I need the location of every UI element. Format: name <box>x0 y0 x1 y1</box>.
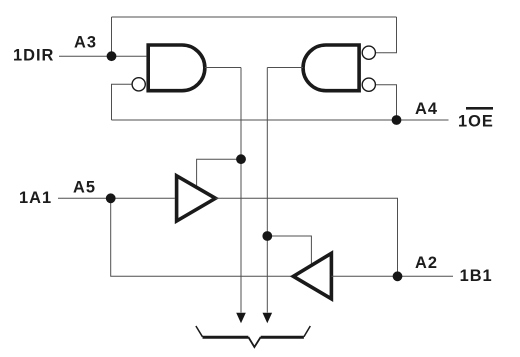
wire DIR node up <box>111 17 113 56</box>
wire U1b lower bubble to OE node <box>376 85 397 120</box>
wire DIR down to U1b top bubble <box>376 17 397 53</box>
AND gate U1b <box>303 45 359 91</box>
arrowhead 1 <box>236 313 246 324</box>
wire U3 input / 1B1 lead <box>331 275 453 277</box>
junction node DIR <box>107 51 117 61</box>
wire OE up to U1a bubble <box>112 84 132 120</box>
brace left tick <box>196 326 203 337</box>
wire 1OE horizontal <box>112 119 449 121</box>
overline of 1OE <box>466 107 493 110</box>
svg-text:A3: A3 <box>74 34 97 52</box>
junction node OE <box>392 115 402 125</box>
wire 1A1 lead <box>58 197 175 199</box>
inverting bubble U1b upper input <box>362 46 375 59</box>
junction node B <box>393 271 403 281</box>
buffer U3 <box>293 253 331 298</box>
arrowhead 2 <box>263 313 273 324</box>
wire DIR top horizontal <box>112 16 397 18</box>
wire enable vertical 2 <box>266 68 268 313</box>
wire U1b output <box>267 67 303 69</box>
inverting bubble U1b lower input <box>362 78 375 91</box>
wire buffer U3 enable <box>267 236 311 266</box>
svg-text:1B1: 1B1 <box>460 267 493 285</box>
junction node A <box>106 193 116 203</box>
svg-text:1DIR: 1DIR <box>13 47 54 65</box>
svg-text:A5: A5 <box>73 179 96 197</box>
wire enable vertical 1 <box>240 68 242 313</box>
wire A node down <box>111 198 292 276</box>
wire buffer U2 enable <box>197 159 241 188</box>
buffer U2 <box>177 176 216 221</box>
wire 1DIR lead <box>59 55 146 57</box>
brace right tick <box>304 326 310 337</box>
svg-text:A2: A2 <box>415 254 438 272</box>
inverting bubble U1a lower input <box>132 78 145 91</box>
brace right bar <box>261 336 304 339</box>
junction node enable1 <box>236 154 246 164</box>
brace left bar <box>203 336 249 339</box>
svg-text:1OE: 1OE <box>458 112 494 130</box>
wire U1a output <box>205 67 241 69</box>
junction node enable2 <box>262 231 272 241</box>
wire U2 output to B node <box>216 198 398 276</box>
AND gate U1a <box>148 45 205 91</box>
svg-text:1A1: 1A1 <box>19 189 52 207</box>
svg-text:A4: A4 <box>415 100 438 118</box>
brace center notch <box>248 337 260 347</box>
